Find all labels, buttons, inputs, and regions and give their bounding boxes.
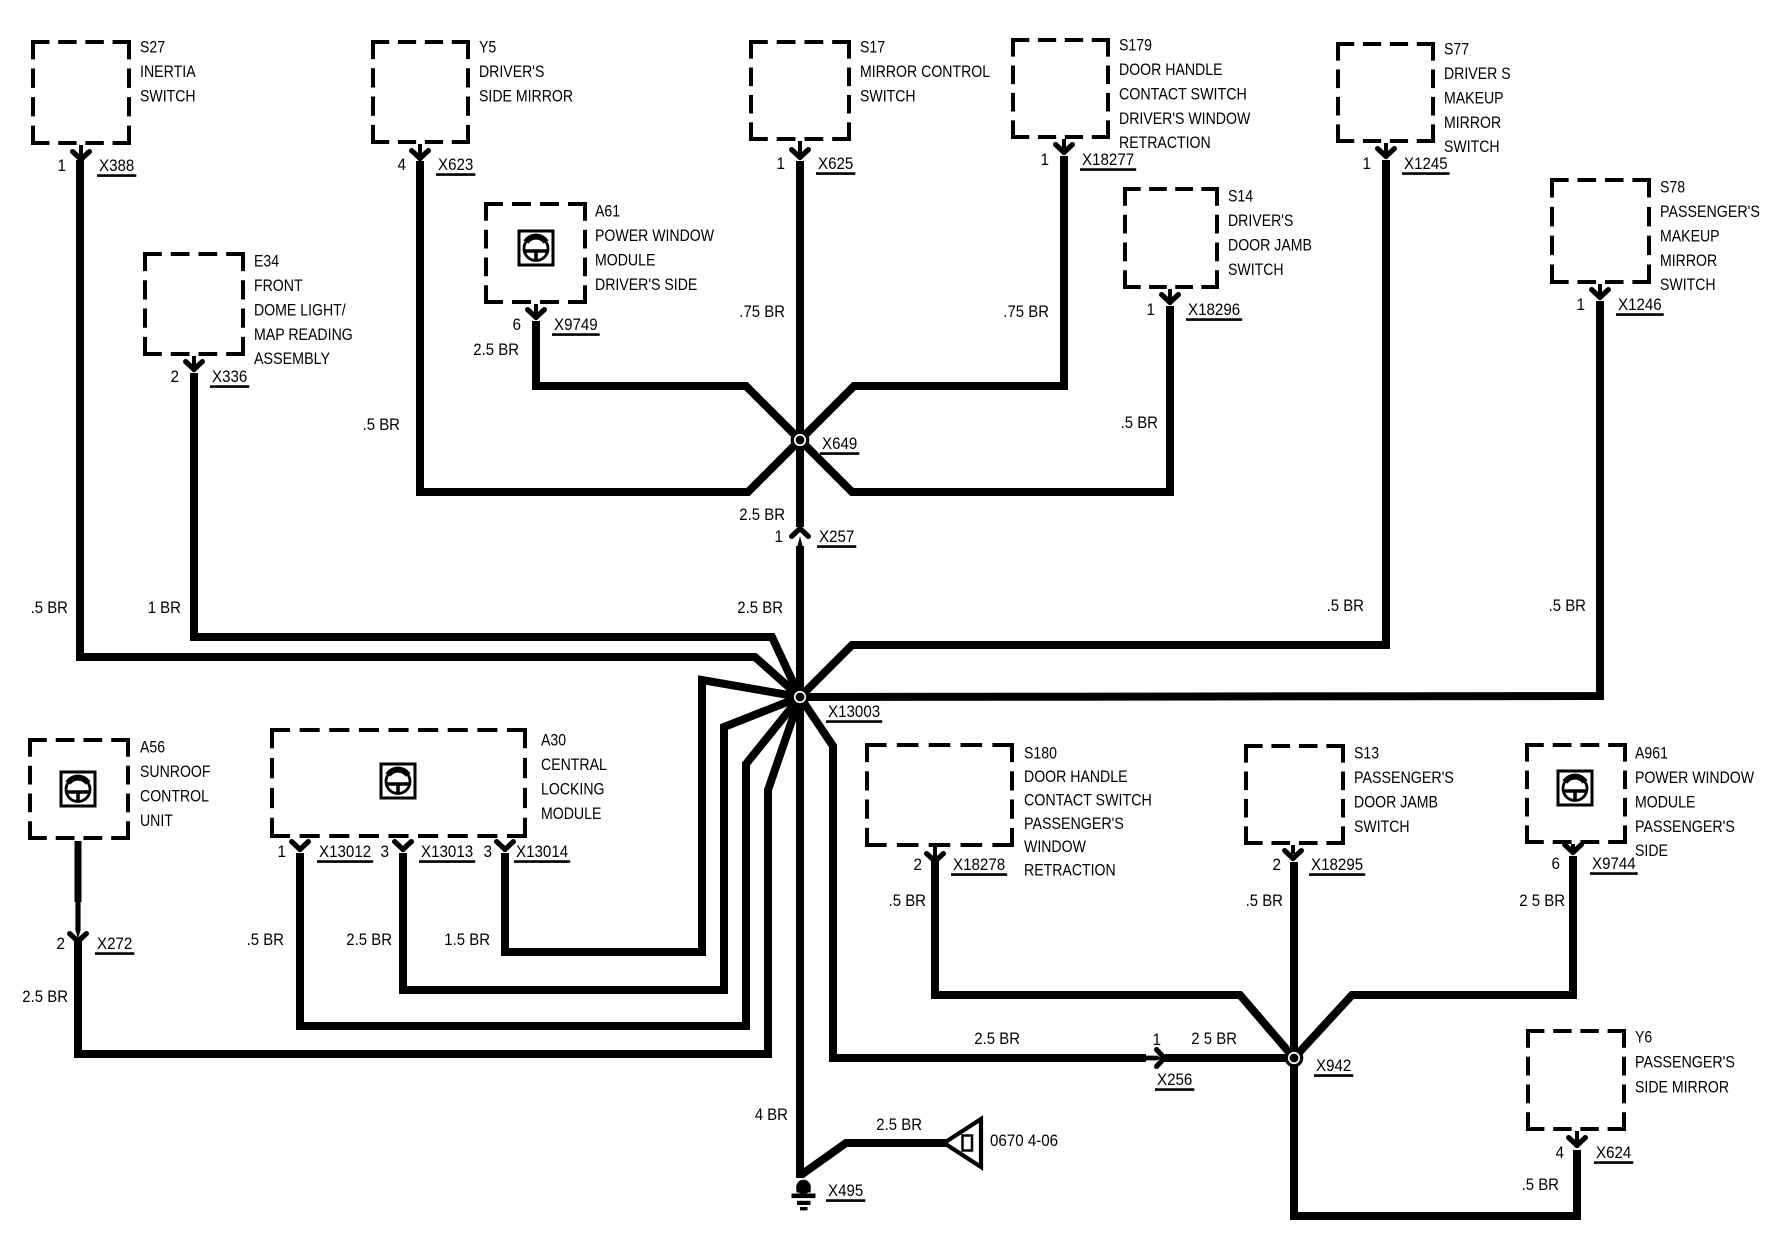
junction node X649 [792, 432, 807, 447]
svg-text:.5 BR: .5 BR [1121, 413, 1158, 432]
svg-text:SWITCH: SWITCH [1354, 817, 1410, 836]
mirror Y6 PASSENGERS SIDE MIRROR [1526, 1029, 1626, 1033]
svg-text:X13014: X13014 [516, 842, 568, 861]
svg-text:A961: A961 [1635, 744, 1668, 763]
junction node X942 [1286, 1050, 1301, 1065]
svg-text:PASSENGER'S: PASSENGER'S [1635, 1053, 1735, 1072]
svg-text:1.5 BR: 1.5 BR [444, 930, 490, 949]
connector X256 (inline, pin 1) [1145, 1056, 1162, 1061]
pin 1 / connector X13012 of A30 [292, 842, 309, 850]
svg-text:MIRROR: MIRROR [1660, 251, 1717, 270]
svg-text:DRIVER S: DRIVER S [1444, 64, 1511, 83]
svg-text:X18278: X18278 [953, 855, 1005, 874]
module A961 POWER WINDOW MODULE PASSENGERS SIDE [1525, 743, 1627, 747]
switch S17 MIRROR CONTROL SWITCH [749, 40, 851, 44]
svg-text:4 BR: 4 BR [755, 1105, 788, 1124]
svg-text:1: 1 [1153, 1030, 1162, 1049]
svg-text:SIDE: SIDE [1635, 841, 1668, 860]
wire X649 to X257 (2.5 BR) [796, 440, 804, 527]
svg-text:2.5 BR: 2.5 BR [22, 987, 68, 1006]
pin 2 / connector X18295 of S13 [1291, 845, 1295, 854]
pin 6 / connector X9749 of A61 [534, 304, 538, 314]
svg-text:A61: A61 [595, 202, 620, 221]
svg-text:S17: S17 [860, 38, 885, 57]
svg-text:SIDE MIRROR: SIDE MIRROR [1635, 1078, 1729, 1097]
wire S14 to X649 (.5 BR) [800, 306, 1170, 492]
svg-text:MIRROR: MIRROR [1444, 113, 1501, 132]
svg-text:SIDE MIRROR: SIDE MIRROR [479, 86, 573, 105]
svg-text:.5 BR: .5 BR [31, 598, 68, 617]
svg-text:S180: S180 [1024, 744, 1057, 763]
svg-text:2: 2 [1273, 855, 1282, 874]
wire X13003 to X256/X942 (2.5 BR) [800, 697, 1146, 1058]
switch S78 PASSENGERS MAKEUP MIRROR SWITCH [1550, 178, 1651, 182]
svg-text:.75 BR: .75 BR [739, 302, 785, 321]
svg-text:MIRROR CONTROL: MIRROR CONTROL [860, 62, 990, 81]
svg-text:X13012: X13012 [319, 842, 371, 861]
svg-text:1: 1 [278, 842, 287, 861]
svg-text:X272: X272 [97, 934, 132, 953]
wire X13003 to A30 X13014 (1.5 BR) [505, 680, 800, 952]
svg-text:2 5 BR: 2 5 BR [1191, 1029, 1237, 1048]
wire A61 to X649 (2.5 BR) [536, 321, 800, 440]
svg-text:2 5 BR: 2 5 BR [1519, 891, 1565, 910]
wire X13003 to A30 X13013 (2.5 BR) [403, 697, 800, 990]
svg-text:DOOR JAMB: DOOR JAMB [1228, 235, 1312, 254]
wire S13 to X942 (.5 BR) [1290, 862, 1298, 1058]
svg-text:PASSENGER'S: PASSENGER'S [1660, 202, 1760, 221]
svg-text:DRIVER'S: DRIVER'S [479, 62, 544, 81]
mirror Y5 DRIVERS SIDE MIRROR [371, 40, 470, 44]
svg-text:.5 BR: .5 BR [1327, 596, 1364, 615]
svg-text:ASSEMBLY: ASSEMBLY [254, 349, 330, 368]
svg-text:MODULE: MODULE [595, 250, 655, 269]
pin 1 / connector X18277 of S179 [1062, 139, 1066, 149]
svg-text:S179: S179 [1119, 36, 1152, 55]
svg-text:Y6: Y6 [1635, 1028, 1652, 1047]
pin 3 / connector X13014 of A30 [497, 842, 514, 850]
svg-text:S14: S14 [1228, 187, 1253, 206]
svg-text:MODULE: MODULE [541, 804, 601, 823]
svg-text:CENTRAL: CENTRAL [541, 755, 607, 774]
svg-text:DRIVER'S SIDE: DRIVER'S SIDE [595, 275, 697, 294]
svg-text:.5 BR: .5 BR [363, 415, 400, 434]
svg-text:X9744: X9744 [1592, 854, 1636, 873]
wire X13003 to A30 X13012 (.5 BR) [300, 697, 800, 1026]
svg-text:LOCKING: LOCKING [541, 779, 605, 798]
svg-text:MAKEUP: MAKEUP [1444, 88, 1504, 107]
svg-text:SWITCH: SWITCH [1228, 260, 1284, 279]
wire Y5 to X649 (.5 BR) [420, 161, 800, 492]
svg-text:RETRACTION: RETRACTION [1024, 861, 1116, 880]
svg-text:4: 4 [398, 155, 407, 174]
svg-text:.5 BR: .5 BR [1522, 1175, 1559, 1194]
svg-text:A56: A56 [140, 738, 165, 757]
switch S179 DOOR HANDLE CONTACT SWITCH [1011, 38, 1110, 42]
switch S13 PASSENGERS DOOR JAMB SWITCH [1244, 744, 1345, 748]
svg-text:2.5 BR: 2.5 BR [974, 1029, 1020, 1048]
pin 3 / connector X13013 of A30 [395, 842, 412, 850]
svg-text:1 BR: 1 BR [148, 598, 181, 617]
electronic module icon of A61 [519, 231, 553, 265]
svg-text:PASSENGER'S: PASSENGER'S [1635, 817, 1735, 836]
svg-text:2: 2 [914, 855, 923, 874]
svg-text:2.5 BR: 2.5 BR [876, 1115, 922, 1134]
electronic module icon of A30 [381, 764, 415, 798]
wire X256 to X942 (2 5 BR) [1165, 1054, 1294, 1062]
svg-text:SUNROOF: SUNROOF [140, 762, 211, 781]
pin 1 / connector X1246 of S78 [1598, 284, 1602, 294]
svg-text:CONTACT SWITCH: CONTACT SWITCH [1119, 84, 1247, 103]
svg-text:POWER WINDOW: POWER WINDOW [1635, 768, 1754, 787]
svg-text:1: 1 [1577, 295, 1586, 314]
module A30 CENTRAL LOCKING MODULE [270, 728, 527, 732]
svg-text:X18296: X18296 [1188, 300, 1240, 319]
svg-text:X649: X649 [822, 434, 857, 453]
pin 1 / connector X18296 of S14 [1168, 289, 1172, 299]
pin 1 / connector X625 of S17 [798, 141, 802, 154]
switch S180 DOOR HANDLE CONTACT SWITCH PASSENGERS [865, 743, 1014, 747]
svg-text:X13003: X13003 [828, 702, 880, 721]
svg-text:3: 3 [381, 842, 390, 861]
module A61 POWER WINDOW MODULE DRIVERS SIDE [484, 202, 587, 206]
svg-text:CONTROL: CONTROL [140, 786, 209, 805]
svg-text:X18277: X18277 [1082, 150, 1134, 169]
pin 2 / connector X272 of A56 [70, 934, 87, 942]
svg-text:WINDOW: WINDOW [1024, 837, 1086, 856]
svg-text:SWITCH: SWITCH [1660, 275, 1716, 294]
switch S14 DRIVERS DOOR JAMB SWITCH [1123, 187, 1219, 191]
pin 4 / connector X623 of Y5 [418, 144, 422, 155]
svg-text:MAP READING: MAP READING [254, 325, 353, 344]
pin 2 / connector X18278 of S180 [933, 847, 937, 858]
pin 2 / connector X336 of E34 [192, 356, 196, 366]
wire S77 to X13003 (.5 BR) [800, 160, 1386, 697]
svg-text:INERTIA: INERTIA [140, 62, 196, 81]
svg-text:4: 4 [1556, 1143, 1565, 1162]
wire S78 to X13003 (.5 BR) [800, 301, 1600, 697]
svg-text:PASSENGER'S: PASSENGER'S [1024, 814, 1124, 833]
junction node X13003 [792, 689, 807, 704]
wire S180 to X942 (.5 BR) [935, 856, 1294, 1058]
wire S17 to X649 (.75 BR) [796, 161, 804, 440]
wire S27 to X13003 (.5 BR) [80, 160, 800, 697]
svg-text:DOME LIGHT/: DOME LIGHT/ [254, 300, 346, 319]
ground symbol X495 [796, 1180, 810, 1194]
svg-text:X18295: X18295 [1311, 855, 1363, 874]
svg-text:X13013: X13013 [421, 842, 473, 861]
svg-text:S77: S77 [1444, 40, 1469, 59]
svg-text:X9749: X9749 [554, 315, 598, 334]
wire A56 box to X272 pin [75, 841, 82, 902]
svg-text:PASSENGER'S: PASSENGER'S [1354, 768, 1454, 787]
wire X257 to X13003 (2.5 BR) [796, 546, 804, 697]
wire X13003 to ground X495 (4 BR) [796, 697, 804, 1178]
svg-text:6: 6 [1552, 854, 1561, 873]
svg-text:X623: X623 [438, 155, 473, 174]
svg-text:2: 2 [57, 934, 66, 953]
wire S179 to X649 (.75 BR) [800, 156, 1064, 440]
svg-text:6: 6 [513, 315, 522, 334]
svg-text:1: 1 [1147, 300, 1156, 319]
pin 4 / connector X624 of Y6 [1575, 1131, 1579, 1142]
svg-text:POWER WINDOW: POWER WINDOW [595, 226, 714, 245]
svg-text:S78: S78 [1660, 178, 1685, 197]
wire E34 to X13003 (1 BR) [194, 373, 800, 697]
module A56 SUNROOF CONTROL UNIT [28, 738, 130, 742]
electronic module icon of A56 [61, 772, 95, 806]
svg-text:DRIVER'S: DRIVER'S [1228, 211, 1293, 230]
svg-text:X624: X624 [1596, 1143, 1631, 1162]
svg-text:X1246: X1246 [1618, 295, 1662, 314]
svg-text:2.5 BR: 2.5 BR [346, 930, 392, 949]
connector X257 (inline, pin 1) [792, 529, 809, 537]
svg-text:SWITCH: SWITCH [1444, 137, 1500, 156]
svg-text:DRIVER'S WINDOW: DRIVER'S WINDOW [1119, 109, 1250, 128]
switch S77 DRIVERS MAKEUP MIRROR SWITCH [1336, 42, 1435, 46]
svg-text:1: 1 [1363, 154, 1372, 173]
svg-text:2.5 BR: 2.5 BR [739, 505, 785, 524]
svg-text:X495: X495 [828, 1181, 863, 1200]
svg-text:.5 BR: .5 BR [247, 930, 284, 949]
svg-text:X256: X256 [1157, 1070, 1192, 1089]
pin 1 / connector X388 of S27 [79, 145, 83, 156]
svg-text:UNIT: UNIT [140, 811, 173, 830]
svg-text:X625: X625 [818, 154, 853, 173]
svg-text:A30: A30 [541, 731, 566, 750]
svg-text:S27: S27 [140, 38, 165, 57]
svg-text:.5 BR: .5 BR [1246, 891, 1283, 910]
svg-text:DOOR JAMB: DOOR JAMB [1354, 792, 1438, 811]
svg-text:1: 1 [1041, 150, 1050, 169]
pin 6 / connector X9744 of A961 [1571, 844, 1575, 849]
svg-text:1: 1 [777, 154, 786, 173]
svg-text:X388: X388 [99, 156, 134, 175]
wire X13003 to A56 X272 (2.5 BR) [78, 697, 800, 1054]
svg-text:.5 BR: .5 BR [1549, 596, 1586, 615]
svg-text:X336: X336 [212, 367, 247, 386]
svg-text:0670 4-06: 0670 4-06 [990, 1131, 1058, 1150]
wire A961 to X942 (2 5 BR) [1294, 856, 1573, 1058]
svg-text:2.5 BR: 2.5 BR [473, 340, 519, 359]
svg-text:.5 BR: .5 BR [889, 891, 926, 910]
svg-text:SWITCH: SWITCH [860, 86, 916, 105]
diagram reference triangle 0670 4-06 [944, 1119, 981, 1167]
svg-text:DOOR HANDLE: DOOR HANDLE [1119, 60, 1223, 79]
svg-text:CONTACT SWITCH: CONTACT SWITCH [1024, 790, 1152, 809]
wire X942 to Y6 X624 (.5 BR) [1294, 1058, 1577, 1216]
svg-text:E34: E34 [254, 252, 279, 271]
svg-text:1: 1 [58, 156, 67, 175]
svg-text:1: 1 [775, 527, 784, 546]
svg-text:S13: S13 [1354, 744, 1379, 763]
svg-text:Y5: Y5 [479, 38, 496, 57]
svg-text:X257: X257 [819, 527, 854, 546]
svg-text:2.5 BR: 2.5 BR [737, 598, 783, 617]
svg-text:MAKEUP: MAKEUP [1660, 226, 1720, 245]
pin 1 / connector X1245 of S77 [1384, 143, 1388, 153]
wire ground branch to diagram ref 0670 4-06 (2.5 BR) [801, 1143, 946, 1175]
svg-text:DOOR HANDLE: DOOR HANDLE [1024, 767, 1128, 786]
switch S27 INERTIA SWITCH [31, 40, 131, 44]
svg-text:2: 2 [171, 367, 180, 386]
svg-text:FRONT: FRONT [254, 276, 303, 295]
svg-text:3: 3 [484, 842, 493, 861]
svg-text:SWITCH: SWITCH [140, 86, 196, 105]
svg-text:.75 BR: .75 BR [1003, 302, 1049, 321]
svg-text:MODULE: MODULE [1635, 792, 1695, 811]
svg-text:X1245: X1245 [1404, 154, 1448, 173]
electronic module icon of A961 [1558, 771, 1592, 805]
svg-text:X942: X942 [1316, 1056, 1351, 1075]
lamp E34 FRONT DOME LIGHT / MAP READING ASSEMBLY [143, 252, 245, 256]
